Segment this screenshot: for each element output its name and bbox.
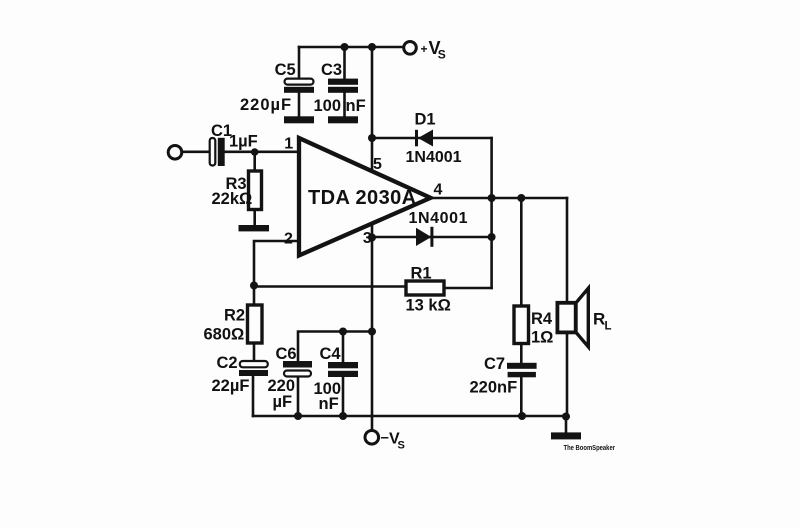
svg-text:TDA 2030A: TDA 2030A	[308, 187, 416, 209]
svg-text:1µF: 1µF	[229, 133, 258, 151]
svg-text:C4: C4	[320, 345, 342, 363]
svg-text:–: –	[381, 429, 389, 446]
svg-text:S: S	[398, 440, 405, 452]
svg-text:R2: R2	[224, 307, 245, 325]
svg-text:680Ω: 680Ω	[204, 326, 245, 344]
svg-text:nF: nF	[319, 395, 339, 413]
svg-text:nF: nF	[346, 97, 366, 115]
svg-text:4: 4	[434, 182, 443, 199]
svg-text:220nF: 220nF	[470, 379, 518, 397]
svg-text:1N4001: 1N4001	[406, 149, 462, 166]
svg-text:C5: C5	[275, 61, 296, 79]
svg-text:+: +	[421, 42, 428, 56]
svg-text:C2: C2	[217, 354, 238, 372]
svg-text:1Ω: 1Ω	[531, 329, 553, 347]
svg-text:R4: R4	[531, 310, 553, 328]
svg-text:L: L	[605, 321, 612, 333]
svg-text:C6: C6	[276, 345, 297, 363]
svg-text:C7: C7	[484, 355, 505, 373]
svg-text:220µF: 220µF	[240, 96, 292, 114]
svg-text:S: S	[438, 48, 446, 62]
svg-text:3: 3	[363, 230, 372, 247]
svg-text:22kΩ: 22kΩ	[212, 190, 253, 208]
svg-text:100: 100	[314, 97, 342, 115]
svg-text:R1: R1	[411, 265, 432, 283]
svg-text:2: 2	[284, 231, 293, 248]
svg-text:R: R	[593, 310, 605, 329]
svg-text:The BoomSpeaker: The BoomSpeaker	[564, 443, 616, 452]
svg-text:µF: µF	[273, 393, 293, 411]
svg-text:22µF: 22µF	[212, 377, 250, 395]
svg-text:13 kΩ: 13 kΩ	[406, 297, 451, 315]
svg-text:1: 1	[284, 136, 293, 153]
svg-text:5: 5	[373, 156, 382, 173]
svg-text:D1: D1	[415, 111, 436, 129]
svg-text:C3: C3	[321, 61, 342, 79]
svg-text:1N4001: 1N4001	[409, 210, 469, 227]
